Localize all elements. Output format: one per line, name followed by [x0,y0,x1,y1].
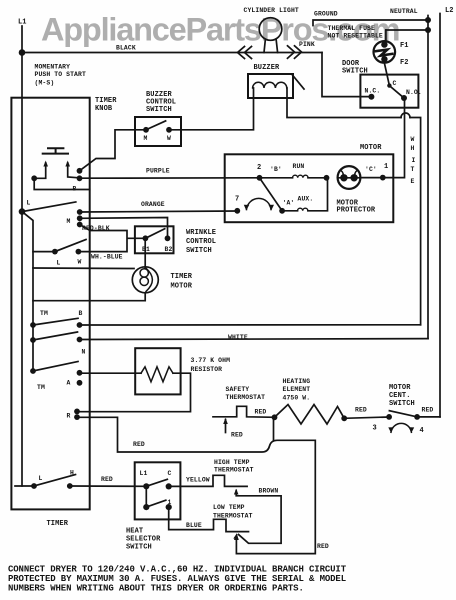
wire orange [80,211,238,212]
svg-text:W: W [411,136,415,143]
wire to wrinkle B2 [80,218,168,239]
svg-text:THERMOSTAT: THERMOSTAT [213,513,253,520]
node L1 rail inside timer [21,53,23,487]
svg-text:TM: TM [37,384,45,391]
wrinkle control switch box [135,226,174,253]
svg-text:1: 1 [384,163,388,171]
heat selector L1 down link [145,486,147,507]
svg-text:H: H [70,470,74,477]
svg-text:BROWN: BROWN [259,488,279,495]
wire B1 down to timer motor [144,238,146,267]
blade L-W [55,240,86,252]
svg-text:BLUE: BLUE [186,522,202,529]
svg-text:3.77 K OHM: 3.77 K OHM [191,357,231,364]
svg-text:4750 W.: 4750 W. [283,395,311,402]
wire buzzer left lead to W [169,88,254,130]
node L junction diagonals [22,202,76,212]
svg-text:WH.-BLUE: WH.-BLUE [91,254,123,261]
wire R lower to red [77,417,315,553]
svg-text:RED: RED [101,476,113,483]
svg-text:'C': 'C' [365,166,377,173]
svg-text:L: L [27,200,31,207]
buzzer striker diagonal [292,75,304,90]
svg-text:CONTROL: CONTROL [186,238,216,246]
svg-text:KNOB: KNOB [95,105,113,113]
push arrows [34,163,46,178]
wire heater to cent switch [344,417,389,418]
high temp arrow brown [236,491,281,544]
resistor zigzag [141,367,173,382]
motor blade 2-A [260,178,283,211]
svg-text:M: M [67,218,71,225]
svg-text:AUX.: AUX. [298,196,314,203]
door switch box [360,75,418,108]
svg-text:PURPLE: PURPLE [146,168,170,175]
svg-text:B2: B2 [165,246,173,253]
svg-text:ELEMENT: ELEMENT [283,386,311,393]
svg-text:TIMER: TIMER [171,273,193,281]
svg-text:C: C [168,470,172,477]
svg-text:'A': 'A' [283,200,295,207]
svg-text:L2: L2 [445,7,454,15]
svg-text:N.O.: N.O. [406,89,422,96]
wire heater junction drop [273,417,275,440]
svg-text:I: I [412,157,416,164]
buzzer box [248,74,293,98]
timer box [11,98,89,510]
svg-text:THERMOSTAT: THERMOSTAT [226,394,266,401]
wire yellow high temp [169,475,247,486]
svg-text:RED: RED [317,543,329,550]
svg-text:4: 4 [420,427,424,435]
svg-text:SWITCH: SWITCH [389,400,415,408]
svg-text:WRINKLE: WRINKLE [186,229,216,237]
svg-text:TIMER: TIMER [95,97,117,105]
svg-text:ORANGE: ORANGE [141,201,165,208]
svg-text:SWITCH: SWITCH [342,68,368,76]
wire red H to heat selector L1 [70,485,147,487]
svg-text:NEUTRAL: NEUTRAL [390,8,418,15]
svg-text:HIGH TEMP: HIGH TEMP [214,459,250,466]
svg-text:SELECTOR: SELECTOR [126,536,161,544]
wire TM B row white [80,324,421,326]
svg-text:C: C [393,80,397,87]
safety thermostat [213,406,275,417]
buzzer control switch box [135,117,181,146]
wire M to timer contact B [80,130,147,171]
connector chevrons left [238,47,252,59]
svg-text:F2: F2 [400,59,409,67]
svg-text:A: A [67,380,71,387]
thermal fuse F1-F2 [385,30,387,41]
svg-text:F1: F1 [400,42,409,50]
wire protector to pin1 [360,177,383,179]
wire buzzer right lead white [287,88,421,325]
svg-text:L1: L1 [140,470,148,477]
svg-text:RED: RED [231,432,243,439]
svg-text:RED-BLK: RED-BLK [82,225,110,232]
blade L-H [34,475,76,487]
svg-text:W: W [167,135,171,142]
svg-text:CONNECT DRYER TO 120/240 V.A.C: CONNECT DRYER TO 120/240 V.A.C.,60 HZ. I… [8,565,347,575]
motor aux winding wire [282,178,327,211]
svg-text:RED: RED [133,441,145,448]
svg-text:L: L [39,475,43,482]
svg-text:7: 7 [235,196,239,204]
motor protector [338,166,361,189]
svg-text:'B': 'B' [270,166,282,173]
svg-text:NOT RESETTABLE: NOT RESETTABLE [328,33,383,40]
heat selector switch box [135,462,181,519]
svg-text:W: W [78,259,82,266]
svg-text:LOW TEMP: LOW TEMP [213,504,245,511]
svg-text:SWITCH: SWITCH [126,544,152,552]
door switch blade C-NO [389,86,404,98]
svg-text:PUSH TO START: PUSH TO START [35,71,86,78]
svg-text:THERMOSTAT: THERMOSTAT [214,467,254,474]
wire resistor out [77,373,191,412]
svg-text:CENT.: CENT. [389,392,411,400]
svg-text:RESISTOR: RESISTOR [191,366,223,373]
svg-text:1: 1 [168,499,172,506]
svg-text:(M-S): (M-S) [35,80,55,87]
svg-text:TIMER: TIMER [47,520,69,528]
connector chevrons right [288,46,302,59]
svg-text:HEATING: HEATING [283,378,311,385]
ground line [313,20,428,26]
svg-text:MOTOR: MOTOR [389,384,411,392]
svg-text:2: 2 [257,164,261,172]
svg-text:3: 3 [373,425,377,433]
cylinder light bulb [259,18,282,41]
svg-text:YELLOW: YELLOW [186,477,210,484]
momentary push button symbol [43,148,68,153]
svg-text:MOTOR: MOTOR [171,283,193,291]
svg-text:PROTECTOR: PROTECTOR [337,207,376,215]
svg-text:MOTOR: MOTOR [360,144,382,152]
heating element zigzag [275,405,345,425]
TM blades [33,318,78,371]
svg-text:CYLINDER LIGHT: CYLINDER LIGHT [244,7,299,14]
buzzer coil [253,82,287,88]
wire timer L contact [15,485,34,487]
svg-text:RED: RED [355,407,367,414]
svg-text:B: B [79,310,83,317]
svg-text:L: L [57,260,61,267]
svg-text:L1: L1 [18,19,27,27]
svg-text:N: N [82,349,86,356]
blade wrinkle B1 [145,229,164,239]
blade buzzer control M [146,121,166,130]
svg-text:BUZZER: BUZZER [254,64,281,72]
wire timer motor bottom [33,294,145,301]
wire inner horizontal [33,267,134,270]
motor arc 7-A [247,198,272,209]
svg-text:B: B [73,186,77,193]
svg-text:E: E [411,178,415,185]
wire pink elbow to door switch NC [322,53,369,97]
svg-text:BLACK: BLACK [116,45,136,52]
wire left contact down elbow [34,178,89,189]
svg-text:RUN: RUN [293,163,305,170]
svg-text:N.C.: N.C. [365,88,381,95]
svg-text:HEAT: HEAT [126,528,143,536]
svg-text:TM: TM [40,310,48,317]
svg-text:T: T [411,166,415,173]
watermark AppliancePartsPros.com [41,12,399,48]
motor box [225,154,394,222]
wire cent switch to L2 [417,416,440,418]
svg-text:PINK: PINK [299,41,315,48]
resistor box [135,348,180,394]
wire hop over NO wire [401,113,410,118]
motor run winding wire [260,177,327,179]
node L1 top-left vertical [21,26,23,53]
svg-text:MOMENTARY: MOMENTARY [35,63,71,70]
wire red-blk to wrinkle B1 [78,225,145,252]
svg-text:SWITCH: SWITCH [186,247,212,255]
arrowhead to low temp [234,534,239,540]
svg-text:RED: RED [255,409,267,416]
wire purple [80,177,260,179]
wire BLACK main top line [22,52,322,54]
neutral fuse line [386,29,428,31]
svg-text:R: R [67,413,71,420]
svg-text:B1: B1 [142,246,150,253]
cent switch arc [391,423,411,432]
motor cent switch blade [389,411,417,417]
wire blue low temp [169,507,249,531]
heat selector blades [146,479,167,507]
wire NO down to motor pin1 [383,98,405,178]
svg-text:SAFETY: SAFETY [226,386,250,393]
wire A row to resistor [80,372,141,374]
svg-text:WHITE: WHITE [228,334,248,341]
timer motor [132,267,158,293]
wire TM N row white [80,338,429,341]
svg-text:M: M [144,135,148,142]
neutral rail vertical [427,16,429,339]
svg-text:H: H [411,145,415,152]
wire L2 rail [439,14,441,417]
svg-text:NUMBERS WHEN WRITING ABOUT THI: NUMBERS WHEN WRITING ABOUT THIS DRYER OR… [8,584,304,594]
svg-text:SWITCH: SWITCH [146,106,172,114]
svg-text:GROUND: GROUND [314,11,338,18]
svg-text:RED: RED [422,407,434,414]
wire fuse to door switch C [384,63,389,86]
svg-text:PROTECTED BY MAXIMUM 30 A. FUS: PROTECTED BY MAXIMUM 30 A. FUSES. ALWAYS… [8,574,346,584]
wire L to W contact [33,251,55,253]
svg-text:THERMAL FUSE: THERMAL FUSE [328,25,376,32]
safety thermostat arrow [225,420,227,433]
